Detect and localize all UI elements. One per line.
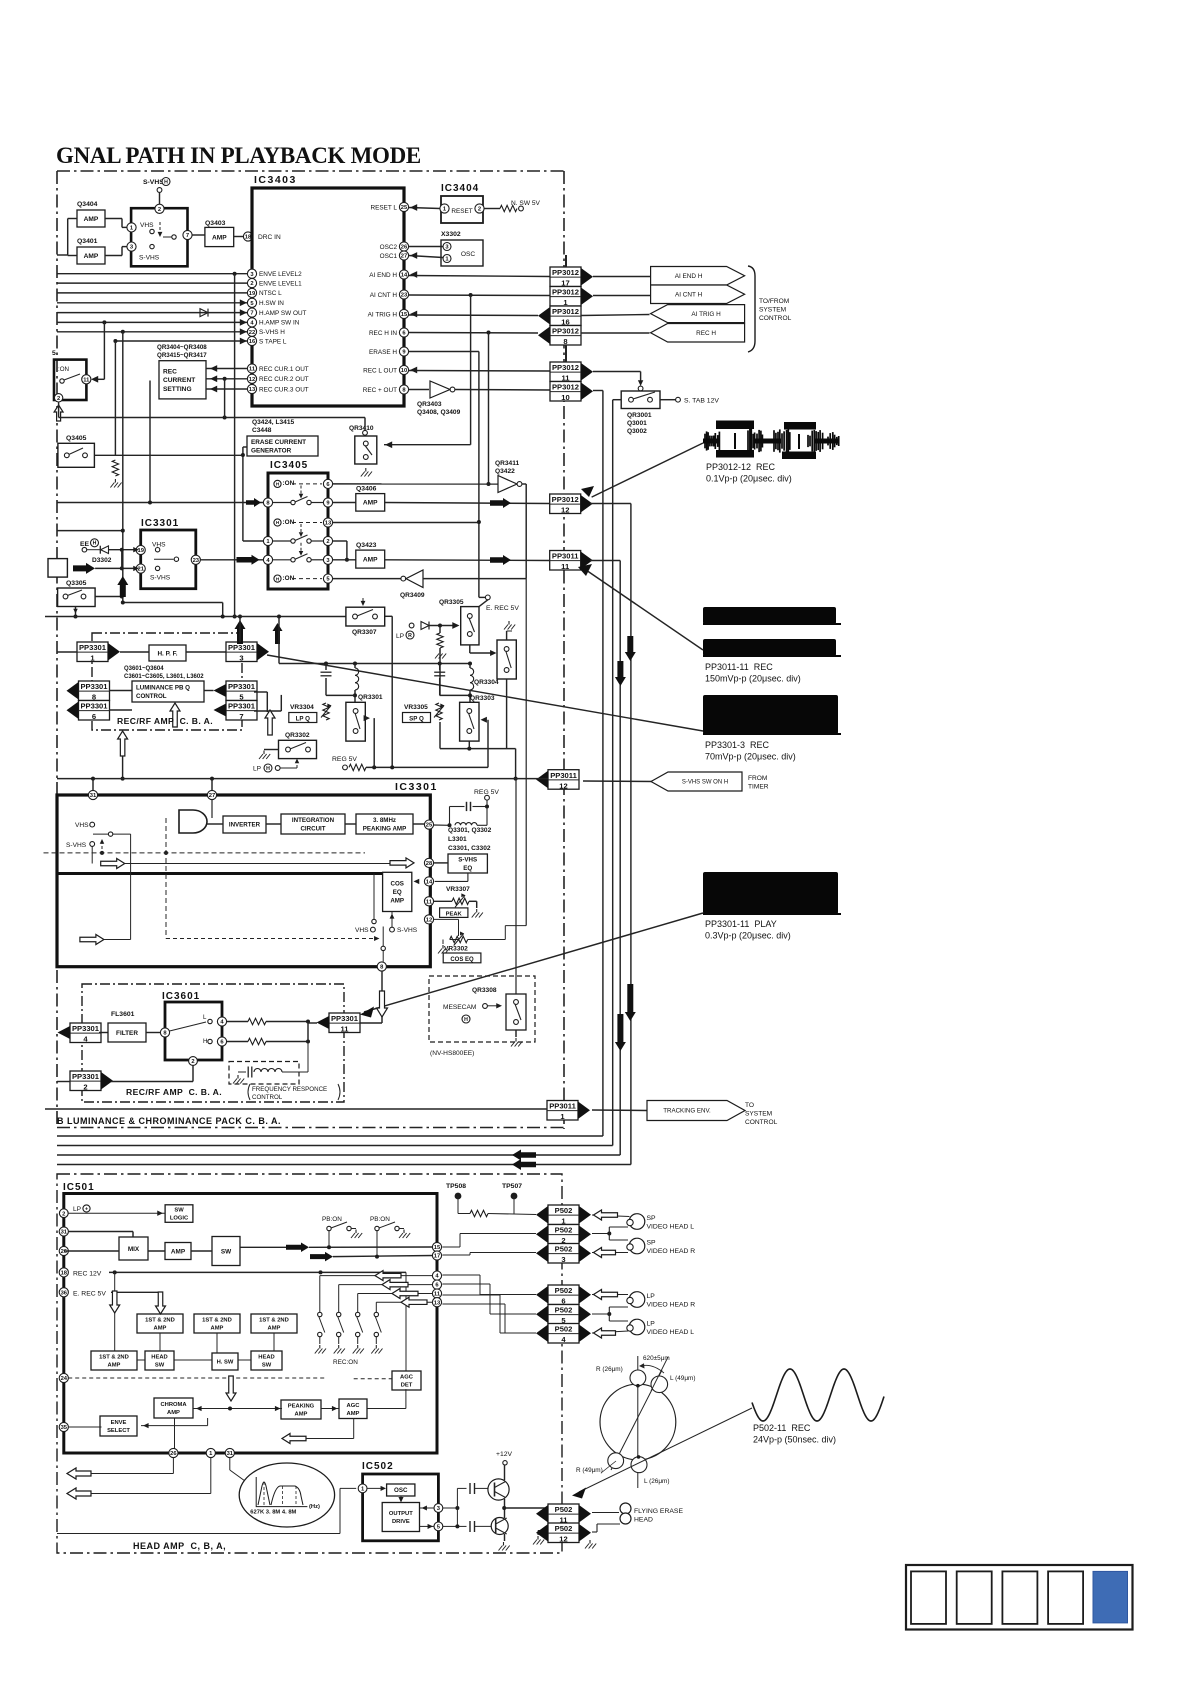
svg-text:P502-11 REC: P502-11 REC bbox=[753, 1423, 811, 1433]
svg-text:LP: LP bbox=[253, 766, 262, 773]
svg-text:FREQUENCY RESPONCE: FREQUENCY RESPONCE bbox=[252, 1086, 327, 1093]
svg-text:AI END H: AI END H bbox=[675, 273, 703, 280]
svg-text:SETTING: SETTING bbox=[163, 386, 192, 393]
svg-text:H: H bbox=[93, 541, 97, 547]
svg-text:VIDEO HEAD R: VIDEO HEAD R bbox=[647, 1248, 696, 1255]
svg-text:Q3423: Q3423 bbox=[356, 542, 377, 549]
svg-text:VIDEO HEAD L: VIDEO HEAD L bbox=[647, 1329, 695, 1336]
svg-text:Q3422: Q3422 bbox=[495, 468, 515, 475]
svg-text:Q3406: Q3406 bbox=[356, 486, 377, 493]
svg-text:HEAD AMP C, B, A,: HEAD AMP C, B, A, bbox=[133, 1541, 226, 1551]
svg-text:REC/RF AMP C. B. A.: REC/RF AMP C. B. A. bbox=[117, 716, 213, 726]
svg-text:FLYING ERASE: FLYING ERASE bbox=[634, 1508, 683, 1515]
svg-text:SYSTEM: SYSTEM bbox=[745, 1111, 772, 1118]
svg-text:PP3012: PP3012 bbox=[552, 288, 579, 297]
svg-text:SW: SW bbox=[221, 1248, 232, 1255]
svg-text:DET: DET bbox=[401, 1383, 413, 1389]
svg-text:Q3002: Q3002 bbox=[627, 428, 647, 435]
svg-text:26: 26 bbox=[401, 245, 408, 251]
svg-text:PP3011: PP3011 bbox=[552, 552, 579, 561]
svg-text:LP: LP bbox=[73, 1206, 82, 1213]
svg-text:PB:ON: PB:ON bbox=[322, 1216, 342, 1223]
svg-text:0.1Vp-p (20μsec. div): 0.1Vp-p (20μsec. div) bbox=[706, 474, 792, 484]
svg-text:C3601~C3605, L3601, L3602: C3601~C3605, L3601, L3602 bbox=[124, 674, 204, 680]
svg-text:11: 11 bbox=[434, 1292, 441, 1298]
svg-text:REC/RF AMP C. B. A.: REC/RF AMP C. B. A. bbox=[126, 1087, 222, 1097]
svg-text:QR3411: QR3411 bbox=[495, 460, 520, 467]
svg-text:ERASE H: ERASE H bbox=[369, 349, 397, 356]
svg-text:COS EQ: COS EQ bbox=[450, 957, 474, 963]
svg-text:QR3302: QR3302 bbox=[285, 732, 310, 739]
svg-text:QR3415~QR3417: QR3415~QR3417 bbox=[157, 352, 207, 359]
svg-text:NTSC L: NTSC L bbox=[259, 290, 282, 297]
svg-text:MIX: MIX bbox=[128, 1246, 140, 1253]
svg-text:7: 7 bbox=[186, 233, 189, 239]
svg-text:31: 31 bbox=[61, 1230, 68, 1236]
svg-text:LP: LP bbox=[396, 633, 405, 640]
svg-text:X3302: X3302 bbox=[441, 231, 461, 238]
svg-text:PP3301: PP3301 bbox=[72, 1024, 100, 1033]
svg-text:VR3305: VR3305 bbox=[404, 704, 428, 711]
svg-text:C3448: C3448 bbox=[252, 427, 272, 434]
svg-text:PP3301: PP3301 bbox=[80, 682, 108, 691]
svg-text:VHS: VHS bbox=[75, 822, 89, 829]
svg-text:S-VHS: S-VHS bbox=[66, 842, 87, 849]
svg-text:15: 15 bbox=[434, 1245, 441, 1251]
svg-text:QR3001: QR3001 bbox=[627, 412, 652, 419]
svg-text:23: 23 bbox=[193, 558, 200, 564]
svg-text:Q3001: Q3001 bbox=[627, 420, 647, 427]
svg-text:REC H: REC H bbox=[696, 330, 716, 337]
svg-text:TIMER: TIMER bbox=[748, 784, 769, 791]
svg-text:L (49μm): L (49μm) bbox=[670, 1375, 695, 1382]
svg-text:AI CNT H: AI CNT H bbox=[675, 292, 703, 299]
svg-text:DRC IN: DRC IN bbox=[258, 234, 281, 241]
svg-text:FROM: FROM bbox=[748, 775, 767, 782]
svg-text:E. REC 5V: E. REC 5V bbox=[73, 1290, 106, 1297]
svg-text:12: 12 bbox=[559, 1535, 567, 1544]
svg-text:12: 12 bbox=[426, 917, 432, 923]
svg-text:COS: COS bbox=[390, 881, 403, 888]
svg-text:H: H bbox=[464, 1017, 468, 1023]
svg-text:PP3011-11 REC: PP3011-11 REC bbox=[705, 662, 773, 672]
svg-text:AMP: AMP bbox=[84, 216, 99, 223]
svg-text:AMP: AMP bbox=[171, 1248, 186, 1255]
svg-text:REC + OUT: REC + OUT bbox=[363, 387, 397, 394]
svg-text:PEAK: PEAK bbox=[446, 912, 463, 918]
svg-text:EQ: EQ bbox=[393, 889, 402, 896]
svg-text:R (26μm): R (26μm) bbox=[596, 1366, 623, 1373]
svg-text:1ST & 2ND: 1ST & 2ND bbox=[99, 1355, 129, 1361]
svg-text:31: 31 bbox=[227, 1451, 234, 1457]
svg-text:QR3308: QR3308 bbox=[472, 987, 497, 994]
svg-text:AI TRIG H: AI TRIG H bbox=[691, 311, 721, 318]
svg-text:S-VHS: S-VHS bbox=[139, 255, 160, 262]
svg-text:AI END H: AI END H bbox=[369, 272, 397, 279]
svg-text:Q3601~Q3604: Q3601~Q3604 bbox=[124, 666, 164, 672]
svg-text:SW: SW bbox=[155, 1363, 165, 1369]
svg-text:PEAKING: PEAKING bbox=[288, 1404, 315, 1410]
svg-text:REC L OUT: REC L OUT bbox=[363, 367, 397, 374]
svg-text:E. REC 5V: E. REC 5V bbox=[486, 605, 519, 612]
svg-text:11: 11 bbox=[83, 377, 90, 383]
svg-text:OSC: OSC bbox=[394, 1487, 408, 1494]
svg-text:TO: TO bbox=[745, 1102, 754, 1109]
svg-text:VHS: VHS bbox=[355, 927, 369, 934]
svg-text:IC3601: IC3601 bbox=[162, 991, 200, 1002]
svg-text:SW: SW bbox=[262, 1363, 272, 1369]
svg-text:IC501: IC501 bbox=[63, 1182, 95, 1193]
svg-text:REC CUR.2 OUT: REC CUR.2 OUT bbox=[259, 376, 309, 383]
svg-text:AI TRIG H: AI TRIG H bbox=[368, 311, 398, 318]
svg-text:VR3307: VR3307 bbox=[446, 886, 470, 893]
svg-text:PP3012: PP3012 bbox=[552, 495, 579, 504]
svg-text:S-VHS: S-VHS bbox=[458, 857, 477, 864]
svg-text:H. SW: H. SW bbox=[217, 1360, 234, 1366]
svg-text:QR3403: QR3403 bbox=[417, 401, 442, 408]
svg-text:PP3011: PP3011 bbox=[549, 1102, 576, 1111]
svg-text:H: H bbox=[203, 1038, 207, 1045]
svg-text:REC: REC bbox=[163, 368, 177, 375]
svg-text:150mVp-p (20μsec. div): 150mVp-p (20μsec. div) bbox=[705, 674, 801, 684]
svg-text:PP3301: PP3301 bbox=[228, 643, 256, 652]
svg-text:PP3012-12 REC: PP3012-12 REC bbox=[706, 462, 776, 472]
svg-text:TRACKING ENV.: TRACKING ENV. bbox=[663, 1108, 711, 1115]
svg-text:13: 13 bbox=[325, 521, 332, 527]
svg-text:HEAD: HEAD bbox=[634, 1517, 653, 1524]
svg-text:CONTROL: CONTROL bbox=[252, 1094, 283, 1101]
svg-text:P502: P502 bbox=[555, 1245, 573, 1254]
svg-text:IC3404: IC3404 bbox=[441, 183, 479, 194]
svg-text:S-VHS H: S-VHS H bbox=[259, 329, 285, 336]
svg-text:25: 25 bbox=[401, 205, 408, 211]
svg-text:2: 2 bbox=[62, 1211, 65, 1217]
svg-text:2: 2 bbox=[57, 396, 60, 402]
svg-text:PP3301-11 PLAY: PP3301-11 PLAY bbox=[705, 919, 777, 929]
svg-text:AMP: AMP bbox=[211, 1326, 224, 1332]
svg-text:15: 15 bbox=[401, 312, 408, 318]
svg-text:HEAD: HEAD bbox=[151, 1355, 167, 1361]
svg-text:Q3405: Q3405 bbox=[66, 435, 87, 442]
svg-text:2: 2 bbox=[158, 207, 161, 213]
svg-text:10: 10 bbox=[401, 368, 407, 374]
svg-text:QR3304: QR3304 bbox=[474, 679, 499, 686]
svg-text:CIRCUIT: CIRCUIT bbox=[300, 825, 325, 832]
svg-text:SP Q: SP Q bbox=[409, 716, 424, 723]
svg-text:AMP: AMP bbox=[268, 1326, 281, 1332]
svg-text:28: 28 bbox=[426, 861, 433, 867]
svg-text:AMP: AMP bbox=[212, 234, 227, 241]
svg-text:19: 19 bbox=[249, 291, 256, 297]
svg-text:QR3307: QR3307 bbox=[352, 629, 377, 636]
svg-text:AMP: AMP bbox=[84, 253, 99, 260]
svg-text:21: 21 bbox=[137, 567, 144, 573]
svg-text:PP3012: PP3012 bbox=[552, 363, 579, 372]
svg-text:P502: P502 bbox=[555, 1226, 573, 1235]
svg-text:ERASE CURRENT: ERASE CURRENT bbox=[251, 439, 306, 446]
svg-text:PP3011: PP3011 bbox=[550, 771, 577, 780]
svg-text:3: 3 bbox=[239, 654, 243, 663]
svg-text:REC:ON: REC:ON bbox=[333, 1359, 358, 1366]
svg-text:SP: SP bbox=[647, 1240, 657, 1247]
svg-text:H. P. F.: H. P. F. bbox=[157, 650, 177, 657]
svg-text:27: 27 bbox=[209, 793, 215, 799]
svg-text:Q3401: Q3401 bbox=[77, 238, 98, 245]
svg-text:VHS: VHS bbox=[140, 222, 154, 229]
svg-text:N. SW 5V: N. SW 5V bbox=[511, 200, 541, 207]
svg-text:5: 5 bbox=[52, 350, 56, 357]
svg-text:Q3403: Q3403 bbox=[205, 220, 226, 227]
svg-text:HEAD: HEAD bbox=[258, 1355, 274, 1361]
svg-text:P502: P502 bbox=[555, 1325, 573, 1334]
svg-text:14: 14 bbox=[401, 273, 408, 279]
svg-text:26: 26 bbox=[170, 1451, 177, 1457]
svg-text:IC3405: IC3405 bbox=[270, 460, 308, 471]
svg-text:TP507: TP507 bbox=[502, 1183, 522, 1190]
svg-text:AMP: AMP bbox=[347, 1411, 360, 1417]
svg-text:11: 11 bbox=[426, 899, 433, 905]
svg-text::ON: :ON bbox=[58, 366, 69, 373]
svg-text:PB:ON: PB:ON bbox=[370, 1216, 390, 1223]
svg-text:REC CUR.1 OUT: REC CUR.1 OUT bbox=[259, 366, 309, 373]
svg-text:OSC2: OSC2 bbox=[380, 244, 398, 251]
svg-text:VR3302: VR3302 bbox=[444, 946, 468, 953]
svg-text:IC3403: IC3403 bbox=[254, 174, 297, 186]
svg-text:Q3404: Q3404 bbox=[77, 201, 98, 208]
svg-text:AI CNT H: AI CNT H bbox=[370, 292, 398, 299]
svg-text:AMP: AMP bbox=[295, 1412, 308, 1418]
svg-text:QR3409: QR3409 bbox=[400, 592, 425, 599]
svg-text:Q3305: Q3305 bbox=[66, 580, 87, 587]
svg-text:QR3303: QR3303 bbox=[470, 695, 495, 702]
svg-text:H.SW IN: H.SW IN bbox=[259, 300, 284, 307]
svg-text:S-VHS: S-VHS bbox=[143, 179, 164, 186]
svg-text:+: + bbox=[85, 1206, 88, 1212]
svg-text:22: 22 bbox=[249, 330, 255, 336]
svg-text:2: 2 bbox=[83, 1083, 87, 1092]
svg-text:QR3305: QR3305 bbox=[439, 599, 464, 606]
svg-text:PP3012: PP3012 bbox=[552, 327, 579, 336]
svg-text:H.AMP SW OUT: H.AMP SW OUT bbox=[259, 310, 307, 317]
svg-text:P502: P502 bbox=[555, 1306, 573, 1315]
svg-text:36: 36 bbox=[61, 1290, 68, 1296]
svg-text:PP3301: PP3301 bbox=[72, 1072, 100, 1081]
svg-text:CONTROL: CONTROL bbox=[136, 693, 167, 700]
svg-text:B LUMINANCE & CHROMINANCE PACK: B LUMINANCE & CHROMINANCE PACK C. B. A. bbox=[57, 1116, 281, 1126]
svg-text:2: 2 bbox=[191, 1059, 194, 1065]
svg-text:2: 2 bbox=[478, 207, 481, 213]
svg-text:PP3301: PP3301 bbox=[228, 682, 256, 691]
svg-text:LP: LP bbox=[647, 1293, 656, 1300]
svg-text:TO/FROM: TO/FROM bbox=[759, 298, 789, 305]
svg-text:23: 23 bbox=[401, 293, 408, 299]
svg-text:24Vp-p (50nsec. div): 24Vp-p (50nsec. div) bbox=[753, 1435, 836, 1445]
svg-text:12: 12 bbox=[559, 781, 567, 790]
svg-text:24: 24 bbox=[61, 1376, 68, 1382]
svg-text:S-VHS: S-VHS bbox=[150, 575, 171, 582]
svg-text:FL3601: FL3601 bbox=[111, 1011, 135, 1018]
svg-text:17: 17 bbox=[434, 1254, 440, 1260]
svg-text:R (49μm): R (49μm) bbox=[576, 1467, 603, 1474]
svg-text:ENVE LEVEL2: ENVE LEVEL2 bbox=[259, 271, 302, 278]
svg-text:SW: SW bbox=[174, 1208, 184, 1214]
svg-text:GNAL PATH IN PLAYBACK MODE: GNAL PATH IN PLAYBACK MODE bbox=[56, 143, 421, 168]
svg-text:AMP: AMP bbox=[167, 1410, 180, 1416]
svg-text:CURRENT: CURRENT bbox=[163, 377, 195, 384]
svg-text:OUTPUT: OUTPUT bbox=[389, 1511, 413, 1517]
svg-text:PP3301: PP3301 bbox=[79, 643, 107, 652]
svg-text:70mVp-p (20μsec. div): 70mVp-p (20μsec. div) bbox=[705, 752, 796, 762]
svg-text:SP: SP bbox=[647, 1215, 657, 1222]
svg-text:1ST & 2ND: 1ST & 2ND bbox=[259, 1318, 289, 1324]
svg-text:CHROMA: CHROMA bbox=[160, 1402, 187, 1408]
svg-text:Q3301, Q3302: Q3301, Q3302 bbox=[448, 827, 492, 834]
svg-text:(Hz): (Hz) bbox=[309, 1504, 320, 1510]
svg-text:AMP: AMP bbox=[363, 556, 378, 563]
svg-text:1ST & 2ND: 1ST & 2ND bbox=[145, 1318, 175, 1324]
svg-text:DRIVE: DRIVE bbox=[392, 1519, 410, 1525]
svg-text:6: 6 bbox=[92, 712, 96, 721]
svg-text:S-VHS: S-VHS bbox=[397, 927, 418, 934]
svg-text:S-VHS SW ON H: S-VHS SW ON H bbox=[682, 780, 728, 786]
svg-text:TP508: TP508 bbox=[446, 1183, 466, 1190]
svg-text:0.3Vp-p (20μsec. div): 0.3Vp-p (20μsec. div) bbox=[705, 931, 791, 941]
svg-text:H: H bbox=[164, 179, 168, 185]
svg-text:LP: LP bbox=[647, 1321, 656, 1328]
svg-text:35: 35 bbox=[61, 1425, 68, 1431]
svg-text:S. TAB 12V: S. TAB 12V bbox=[684, 398, 719, 405]
svg-text:QR3410: QR3410 bbox=[349, 425, 374, 432]
svg-text:2: 2 bbox=[326, 539, 329, 545]
svg-text:7: 7 bbox=[250, 311, 253, 317]
svg-text:PP3012: PP3012 bbox=[552, 383, 579, 392]
svg-text:P502: P502 bbox=[555, 1524, 573, 1533]
svg-text:LOGIC: LOGIC bbox=[170, 1216, 189, 1222]
svg-text:IC3301: IC3301 bbox=[395, 781, 438, 793]
svg-text:2: 2 bbox=[250, 281, 253, 287]
svg-text:VIDEO HEAD R: VIDEO HEAD R bbox=[647, 1302, 696, 1309]
svg-text:18: 18 bbox=[61, 1270, 68, 1276]
svg-text:P502: P502 bbox=[555, 1505, 573, 1514]
svg-text:3: 3 bbox=[561, 1255, 565, 1264]
svg-text:MESECAM: MESECAM bbox=[443, 1004, 476, 1011]
svg-text:19: 19 bbox=[137, 548, 144, 554]
svg-text:L3301: L3301 bbox=[448, 836, 467, 843]
svg-text:AMP: AMP bbox=[108, 1363, 121, 1369]
svg-text:REG 5V: REG 5V bbox=[474, 789, 499, 796]
svg-text:AMP: AMP bbox=[154, 1326, 167, 1332]
svg-text:REC 12V: REC 12V bbox=[73, 1270, 102, 1277]
svg-text:VR3304: VR3304 bbox=[290, 704, 314, 711]
svg-text:11: 11 bbox=[340, 1025, 349, 1034]
svg-text:PP3301: PP3301 bbox=[228, 702, 256, 711]
svg-text:Q3424, L3415: Q3424, L3415 bbox=[252, 419, 294, 426]
svg-text:QR3301: QR3301 bbox=[358, 694, 383, 701]
svg-text:8: 8 bbox=[563, 337, 567, 346]
svg-text:L: L bbox=[203, 1014, 207, 1021]
svg-text:14: 14 bbox=[426, 879, 433, 885]
svg-text:INTEGRATION: INTEGRATION bbox=[292, 817, 335, 824]
svg-text:10: 10 bbox=[561, 393, 569, 402]
svg-text:REC CUR.3 OUT: REC CUR.3 OUT bbox=[259, 386, 309, 393]
svg-text:D3302: D3302 bbox=[92, 557, 112, 564]
svg-text:12: 12 bbox=[561, 506, 569, 515]
svg-text:IC502: IC502 bbox=[362, 1461, 394, 1472]
svg-text:VIDEO HEAD L: VIDEO HEAD L bbox=[647, 1224, 695, 1231]
svg-text:ENVE: ENVE bbox=[111, 1420, 127, 1426]
svg-text:P502: P502 bbox=[555, 1286, 573, 1295]
svg-text:REG 5V: REG 5V bbox=[332, 756, 357, 763]
svg-text:PP3301: PP3301 bbox=[80, 702, 108, 711]
svg-text:27: 27 bbox=[401, 254, 407, 260]
svg-text:L (26μm): L (26μm) bbox=[644, 1478, 669, 1485]
svg-text:C3301, C3302: C3301, C3302 bbox=[448, 845, 491, 852]
svg-text:RESET: RESET bbox=[451, 208, 472, 215]
svg-text:CONTROL: CONTROL bbox=[759, 315, 792, 322]
svg-text:26: 26 bbox=[61, 1249, 68, 1255]
svg-text:H.AMP SW IN: H.AMP SW IN bbox=[259, 320, 300, 327]
svg-text:H: H bbox=[266, 766, 270, 772]
svg-text:12: 12 bbox=[249, 377, 255, 383]
svg-text:QR3404~QR3408: QR3404~QR3408 bbox=[157, 344, 207, 351]
svg-text:PP3301: PP3301 bbox=[331, 1014, 359, 1023]
svg-text:+12V: +12V bbox=[496, 1451, 513, 1458]
svg-text:11: 11 bbox=[561, 562, 570, 571]
svg-text:LP Q: LP Q bbox=[296, 716, 311, 723]
svg-text:13: 13 bbox=[434, 1300, 441, 1306]
svg-text:OSC1: OSC1 bbox=[380, 253, 398, 260]
svg-text:PP3012: PP3012 bbox=[552, 307, 579, 316]
svg-text:IC3301: IC3301 bbox=[141, 518, 179, 529]
svg-text:Q3408, Q3409: Q3408, Q3409 bbox=[417, 409, 461, 416]
svg-text:13: 13 bbox=[249, 387, 256, 393]
svg-text:11: 11 bbox=[249, 367, 256, 373]
svg-text:GENERATOR: GENERATOR bbox=[251, 448, 292, 455]
svg-text:ENVE LEVEL1: ENVE LEVEL1 bbox=[259, 280, 302, 287]
svg-text:627K 3. 8M 4. 8M: 627K 3. 8M 4. 8M bbox=[250, 1510, 296, 1516]
svg-text:EQ: EQ bbox=[463, 865, 472, 872]
svg-text:PP3301-3 REC: PP3301-3 REC bbox=[705, 740, 770, 750]
svg-text:16: 16 bbox=[249, 339, 256, 345]
svg-text:31: 31 bbox=[90, 793, 97, 799]
svg-text:RESET L: RESET L bbox=[370, 204, 397, 211]
svg-text:REC H IN: REC H IN bbox=[369, 330, 397, 337]
svg-text:P502: P502 bbox=[555, 1206, 573, 1215]
svg-text:LUMINANCE PB Q: LUMINANCE PB Q bbox=[136, 685, 190, 692]
svg-text:AMP: AMP bbox=[390, 898, 404, 905]
svg-text:AMP: AMP bbox=[363, 500, 378, 507]
svg-text:CONTROL: CONTROL bbox=[745, 1119, 778, 1126]
svg-text:PP3012: PP3012 bbox=[552, 268, 579, 277]
svg-text:R: R bbox=[408, 633, 412, 639]
svg-text:7: 7 bbox=[239, 712, 243, 721]
svg-text:SYSTEM: SYSTEM bbox=[759, 307, 786, 314]
svg-text:FILTER: FILTER bbox=[116, 1030, 138, 1037]
svg-text:SELECT: SELECT bbox=[107, 1428, 130, 1434]
svg-text:3. 8MHz: 3. 8MHz bbox=[373, 817, 396, 824]
svg-text:INVERTER: INVERTER bbox=[229, 822, 261, 829]
svg-text:PEAKING AMP: PEAKING AMP bbox=[363, 825, 406, 832]
svg-text:AGC: AGC bbox=[400, 1375, 414, 1381]
svg-text:S TAPE L: S TAPE L bbox=[259, 338, 287, 345]
svg-text:1ST & 2ND: 1ST & 2ND bbox=[202, 1318, 232, 1324]
svg-text:AGC: AGC bbox=[347, 1403, 361, 1409]
svg-text:25: 25 bbox=[426, 823, 433, 829]
svg-text:OSC: OSC bbox=[461, 251, 476, 258]
svg-text:(NV-HS800EE): (NV-HS800EE) bbox=[430, 1050, 474, 1057]
